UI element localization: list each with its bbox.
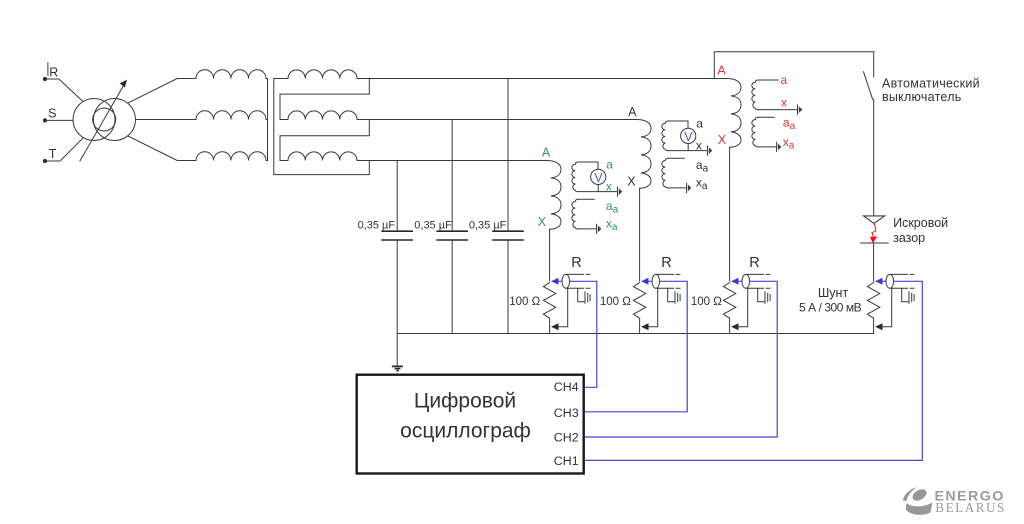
svg-text:x: x [696, 139, 702, 153]
T3 secondary winding 2 [662, 158, 668, 188]
logo leaf [911, 487, 929, 503]
capacitor C2 0,35uF [451, 120, 453, 334]
T4 primary winding [727, 79, 741, 148]
wire breaker to gap [873, 99, 875, 216]
svg-text:R: R [571, 255, 581, 271]
svg-text:X: X [627, 175, 636, 189]
svg-text:зазор: зазор [893, 231, 925, 245]
svg-text:X: X [718, 133, 727, 147]
svg-text:Шунт: Шунт [818, 286, 849, 300]
secondary link step1 [280, 79, 369, 120]
T2 secondary winding 2 [572, 199, 578, 229]
wire T2 X lead [549, 229, 551, 281]
svg-text:CH3: CH3 [554, 406, 579, 420]
capacitor C3 0,35uF [507, 79, 509, 334]
svg-text:0,35 µF: 0,35 µF [469, 219, 507, 231]
svg-text:V: V [684, 130, 693, 144]
wire middle line [357, 119, 637, 121]
T3 voltmeter V [681, 128, 696, 143]
svg-text:Цифровой: Цифровой [414, 390, 516, 413]
variac circle right [94, 99, 136, 141]
T4 probe xa [777, 142, 782, 151]
svg-text:Автоматический: Автоматический [882, 76, 980, 90]
primary winding top [196, 70, 266, 79]
terminal R [43, 77, 47, 81]
svg-text:Искровой: Искровой [893, 216, 948, 230]
svg-text:A: A [542, 146, 551, 160]
svg-text:CH1: CH1 [554, 454, 579, 468]
ground symbol [396, 334, 398, 366]
T4 secondary winding 2 [752, 117, 758, 147]
wire top line [357, 78, 727, 80]
svg-text:xa: xa [783, 135, 795, 152]
svg-text:a: a [696, 117, 703, 131]
T2 secondary winding 1 [572, 162, 578, 192]
primary winding bottom [196, 152, 266, 161]
svg-text:R: R [661, 255, 671, 271]
secondary winding bottom [288, 152, 357, 161]
T4 secondary winding 1 [752, 80, 758, 110]
wire middle output [136, 119, 197, 121]
svg-text:V: V [594, 171, 603, 185]
wire bottom line [357, 160, 547, 162]
T3 probe x [708, 146, 713, 155]
wire top output [128, 79, 196, 104]
capacitor C1 0,35uF [396, 161, 398, 334]
primary winding middle [196, 111, 266, 120]
svg-text:выключатель: выключатель [882, 90, 962, 104]
svg-text:100 Ω: 100 Ω [600, 296, 631, 308]
svg-text:aa: aa [783, 116, 796, 133]
wire breaker top [714, 52, 873, 79]
T2 voltmeter V [591, 169, 606, 184]
cursor artifact [47, 63, 49, 76]
wire bottom output [128, 136, 196, 161]
svg-text:BELARUS: BELARUS [935, 500, 1006, 515]
wire T lead [45, 138, 83, 161]
wire T4 X lead [729, 147, 731, 281]
wire CH4 blue [551, 281, 596, 387]
resistor R1 100R [543, 274, 590, 333]
svg-text:0,35 µF: 0,35 µF [358, 219, 396, 231]
svg-text:100 Ω: 100 Ω [509, 296, 540, 308]
variac circle left [73, 99, 115, 141]
secondary link step2 [280, 120, 369, 161]
breaker blade [864, 72, 873, 99]
wire S lead [45, 119, 73, 121]
variac arrow [80, 84, 124, 161]
svg-text:S: S [48, 107, 56, 121]
svg-text:CH4: CH4 [554, 380, 579, 394]
wire R lead [45, 79, 83, 101]
wire CH2 blue [585, 281, 777, 437]
svg-text:5 А / 300 мВ: 5 А / 300 мВ [799, 300, 862, 314]
svg-text:a: a [606, 158, 613, 172]
secondary delta outer link [274, 79, 370, 175]
svg-text:осциллограф: осциллограф [400, 420, 531, 443]
terminal S [43, 118, 47, 122]
shunt resistor [867, 274, 914, 333]
T3 secondary winding 1 [662, 121, 668, 151]
svg-text:R: R [49, 65, 58, 79]
resistor R3 100R [723, 274, 770, 333]
primary star bus [266, 79, 268, 161]
T4 probe x [798, 105, 803, 114]
T2 probe x [618, 187, 623, 196]
T2 probe xa [597, 224, 602, 233]
variac circle small [93, 108, 116, 131]
svg-text:aa: aa [606, 199, 619, 216]
spark bolt [872, 224, 876, 237]
resistor R2 100R [633, 274, 680, 333]
svg-text:x: x [781, 96, 787, 110]
secondary winding middle [288, 111, 357, 120]
svg-text:aa: aa [696, 158, 709, 175]
svg-text:xa: xa [606, 217, 618, 234]
svg-text:xa: xa [696, 176, 708, 193]
svg-text:a: a [781, 73, 788, 87]
wire ground bus [397, 333, 873, 335]
svg-text:X: X [538, 215, 547, 229]
secondary winding top [288, 70, 357, 79]
T3 primary winding [637, 120, 651, 189]
svg-text:A: A [717, 64, 726, 78]
wire gap to shunt [873, 243, 875, 281]
svg-text:T: T [49, 147, 57, 161]
wire T3 X lead [639, 188, 641, 281]
T3 probe xa [687, 183, 692, 192]
svg-text:100 Ω: 100 Ω [691, 296, 722, 308]
spark gap bar [861, 242, 889, 244]
svg-text:x: x [606, 180, 612, 194]
wire CH3 blue [585, 281, 687, 412]
wire CH1 blue [585, 281, 922, 460]
svg-text:A: A [628, 105, 637, 119]
svg-text:0,35 µF: 0,35 µF [414, 219, 452, 231]
T2 primary winding [547, 161, 561, 230]
svg-text:CH2: CH2 [554, 430, 579, 444]
svg-text:R: R [749, 255, 759, 271]
terminal T [43, 159, 47, 163]
